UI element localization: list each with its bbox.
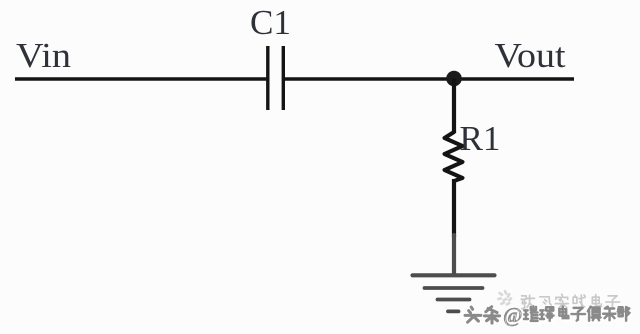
svg-text:Vin: Vin (16, 36, 71, 75)
实 (555, 294, 568, 308)
乐 (603, 307, 615, 321)
部 (618, 307, 630, 321)
璀 (524, 306, 538, 321)
条 (484, 307, 499, 323)
头 (465, 307, 481, 322)
wire (285, 77, 574, 81)
svg-text:Vout: Vout (495, 36, 566, 75)
capacitor C1 (268, 46, 284, 110)
子 (606, 296, 620, 309)
node junction (446, 71, 462, 87)
watermark main text (465, 303, 631, 327)
wire (452, 78, 456, 133)
飞 (540, 297, 551, 305)
resistor R1 (445, 132, 463, 181)
电 (559, 307, 568, 318)
电 (592, 295, 601, 306)
watermark faint text (498, 291, 619, 309)
ground (413, 235, 495, 311)
svg-text:C1: C1 (250, 3, 291, 42)
svg-text:@: @ (503, 303, 523, 327)
俱 (588, 307, 601, 321)
子 (571, 308, 585, 321)
战 (573, 295, 585, 308)
wire (15, 77, 267, 81)
wire (452, 179, 456, 237)
svg-text:R1: R1 (460, 119, 501, 158)
张 (521, 295, 534, 308)
璨 (540, 307, 554, 320)
